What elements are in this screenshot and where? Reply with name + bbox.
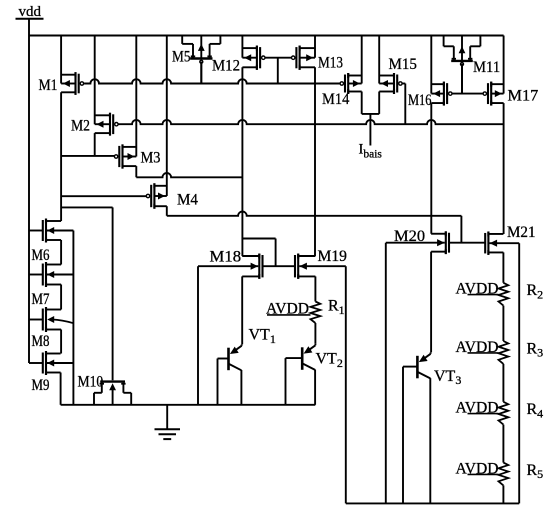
transistor M7 — [46, 264, 61, 266]
wire VT2 base drop — [285, 358, 287, 405]
svg-text:M9: M9 — [32, 377, 50, 394]
wire M1 drain column down to M6 — [60, 92, 62, 221]
wire R4-R5 — [502, 425, 504, 463]
transistor M1 — [61, 74, 75, 76]
wire M2 drain drop — [94, 133, 96, 156]
svg-text:M18: M18 — [210, 249, 242, 266]
svg-text:M14: M14 — [322, 91, 349, 108]
wire jog from M12 column to M18-M19 gates — [242, 238, 275, 240]
transistor M6 — [46, 220, 61, 222]
wire gate bus 2 (M2 gate to M15/M17 column) — [118, 120, 504, 124]
wire M3 drain drop — [135, 166, 137, 177]
transistor VT3 — [430, 352, 432, 354]
wire M19 source drop to R1 — [314, 276, 316, 301]
wire M4 gate to M1 drain node — [61, 195, 146, 197]
wire M10 gate column — [112, 207, 114, 380]
node vdd supply lead — [28, 19, 30, 36]
resistor R5 — [499, 463, 509, 486]
svg-text:M7: M7 — [32, 291, 50, 308]
wire VT1 base drop — [217, 359, 219, 405]
svg-text:M11: M11 — [473, 59, 500, 76]
wire M11 gate drop — [461, 64, 463, 94]
transistor VT1 — [241, 344, 243, 345]
wire M15 drain drop — [378, 92, 380, 114]
transistor M8 — [46, 309, 61, 311]
svg-text:M16: M16 — [408, 92, 432, 109]
wire M21 body to lower rail — [518, 243, 520, 503]
svg-text:M13: M13 — [318, 55, 343, 72]
wire M12-M13 gate drop to gate bus 1 — [277, 58, 279, 84]
wire M16 source column — [430, 36, 432, 94]
transistor M11 (MOS cap) — [453, 46, 455, 60]
wire M19 body drop to lower rail — [345, 266, 347, 503]
wire M15 gate drop to gate bus 2 — [404, 84, 406, 125]
wire R3-R4 — [502, 364, 504, 402]
wire M18 body to ground — [197, 266, 199, 405]
wire R2-R3 — [502, 306, 504, 341]
transistor M5 (MOS cap) — [192, 44, 194, 58]
wire M2 source column — [94, 36, 96, 125]
transistor M2 — [95, 114, 110, 116]
resistor R4 — [499, 402, 509, 425]
transistor M15 — [379, 75, 394, 77]
wire vdd top rail — [29, 35, 504, 37]
wire middle ground rail — [61, 404, 316, 406]
wire M6-M7 link — [60, 240, 62, 265]
transistor VT2 — [314, 344, 316, 346]
wire M9 source to ground rail — [60, 373, 62, 405]
wire M14 drain drop — [361, 92, 363, 114]
resistor R2 — [499, 283, 509, 306]
wire M14 source column — [361, 36, 363, 84]
wire left bias column (vdd to M6-M9 gates) — [28, 36, 30, 364]
svg-text:M15: M15 — [389, 56, 417, 73]
transistor M20 — [431, 233, 446, 235]
transistor M3 — [123, 146, 137, 148]
wire R1 to VT2 emitter — [314, 323, 316, 344]
wire M4 source column — [166, 36, 168, 197]
svg-text:M3: M3 — [141, 150, 161, 167]
svg-text:M21: M21 — [507, 224, 536, 241]
transistor M14 — [348, 75, 362, 77]
svg-text:M6: M6 — [32, 247, 50, 264]
wire M8 body curve — [53, 320, 74, 324]
transistor M9 — [46, 353, 61, 355]
transistor M10 (MOS cap) — [101, 383, 103, 393]
wire M17 drain column down to M21 — [503, 103, 505, 234]
wire M13 source column — [314, 36, 316, 58]
svg-text:M10: M10 — [78, 374, 104, 391]
wire M12 drain column down to M18 — [241, 67, 243, 256]
wire M12 source column — [241, 36, 243, 58]
wire M16 drain column down to M20 — [430, 103, 432, 234]
wire M1 drain jog toward M10 gate — [61, 206, 113, 208]
transistor M17 — [491, 83, 503, 85]
ground — [166, 405, 168, 430]
transistor M12 — [242, 47, 257, 49]
wire M5 gate drop to gate bus 1 — [200, 62, 202, 84]
svg-text:vdd: vdd — [19, 4, 42, 20]
svg-text:M17: M17 — [508, 88, 539, 105]
resistor R1 — [311, 302, 321, 324]
svg-text:M2: M2 — [71, 118, 90, 135]
svg-text:M19: M19 — [318, 248, 347, 265]
wire M14-M15 common drain — [362, 113, 380, 115]
wire M7-M8 link — [60, 285, 62, 310]
wire M13 drain column down to M19 — [314, 67, 316, 256]
wire M3 source column — [135, 36, 137, 157]
wire M20 source drop to VT3 emitter — [430, 252, 432, 353]
svg-text:M8: M8 — [32, 333, 50, 350]
wire Ibais lead — [369, 114, 371, 146]
wire M15 source column — [378, 36, 380, 84]
transistor M16 — [431, 83, 444, 85]
transistor M19 — [298, 255, 315, 257]
wire M12-M13 gate tie — [265, 57, 292, 59]
wire gate bus 1 (M1-M5-M12-M13-M14) — [84, 79, 340, 83]
svg-text:M1: M1 — [39, 77, 58, 94]
transistor M21 — [488, 233, 503, 235]
svg-text:M5: M5 — [172, 48, 191, 65]
wire M3 gate to M1 drain node — [61, 155, 114, 157]
wire VT3 base drop — [402, 367, 404, 504]
resistor R3 — [499, 341, 509, 364]
transistor M18 — [242, 255, 259, 257]
wire body column M6-M9 — [72, 231, 74, 405]
transistor M4 — [154, 185, 166, 187]
wire M20 gate tie to M21 — [449, 242, 485, 244]
wire M18-M19 gate tie — [262, 265, 295, 267]
wire drop to M18-M19 gate tie — [275, 239, 277, 267]
wire M4 drain drop — [166, 206, 168, 216]
wire M17 source column (right edge) — [503, 36, 505, 94]
transistor M13 — [300, 47, 315, 49]
svg-text:M12: M12 — [212, 58, 240, 75]
wire M8-M9 link — [60, 330, 62, 354]
wire M21 source drop to R2 — [502, 252, 504, 282]
wire M16-M17 gate tie — [452, 93, 484, 95]
wire M18 source drop to VT1 emitter — [241, 276, 243, 344]
wire M3 drain to M12/M18 column — [136, 173, 242, 177]
wire M1 source column — [60, 36, 62, 84]
wire M20 body to lower rail — [385, 243, 387, 504]
svg-text:M20: M20 — [394, 228, 425, 245]
wire lower ground rail — [346, 502, 519, 504]
wire M4 drain bus to M20 gate — [167, 212, 462, 216]
wire M4 drain bus drop to M20 gate — [460, 216, 462, 243]
svg-text:M4: M4 — [177, 192, 198, 209]
wire R5 to lower rail — [502, 485, 504, 503]
